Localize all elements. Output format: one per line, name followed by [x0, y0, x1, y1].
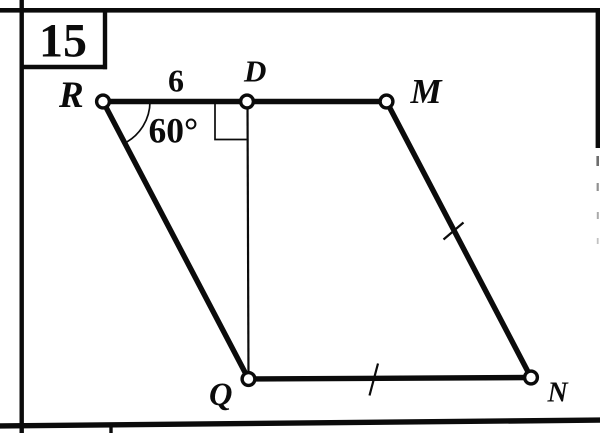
wire RQ (left side): [103, 102, 249, 380]
node R: [97, 95, 110, 108]
wire QN (bottom side): [249, 378, 532, 380]
tick mark on MN: [444, 223, 464, 240]
wire DQ (thin altitude): [248, 102, 249, 380]
svg-text:60°: 60°: [149, 111, 199, 151]
node D: [241, 95, 254, 108]
svg-text:N: N: [547, 377, 570, 408]
wire RM (top side through D): [103, 99, 387, 104]
border: top rule: [0, 8, 600, 13]
node Q: [242, 373, 255, 386]
border: cell divider tick below bottom rule: [109, 423, 112, 433]
node M: [380, 95, 393, 108]
wire MN (right side): [387, 102, 532, 378]
svg-text:Q: Q: [209, 377, 232, 413]
angle arc 60 at R: [125, 102, 150, 144]
svg-text:15: 15: [39, 15, 87, 68]
svg-text:R: R: [58, 75, 84, 116]
svg-text:D: D: [243, 54, 266, 89]
svg-text:6: 6: [168, 63, 184, 99]
border: left rule: [20, 0, 24, 433]
border: right rule (fading): [596, 8, 600, 244]
right angle mark at D: [215, 104, 247, 140]
border: bottom rule (slightly sloped): [0, 417, 600, 428]
problem number box: [21, 10, 107, 69]
tick mark on QN: [370, 364, 379, 396]
node N: [525, 371, 538, 384]
svg-text:M: M: [410, 72, 444, 111]
